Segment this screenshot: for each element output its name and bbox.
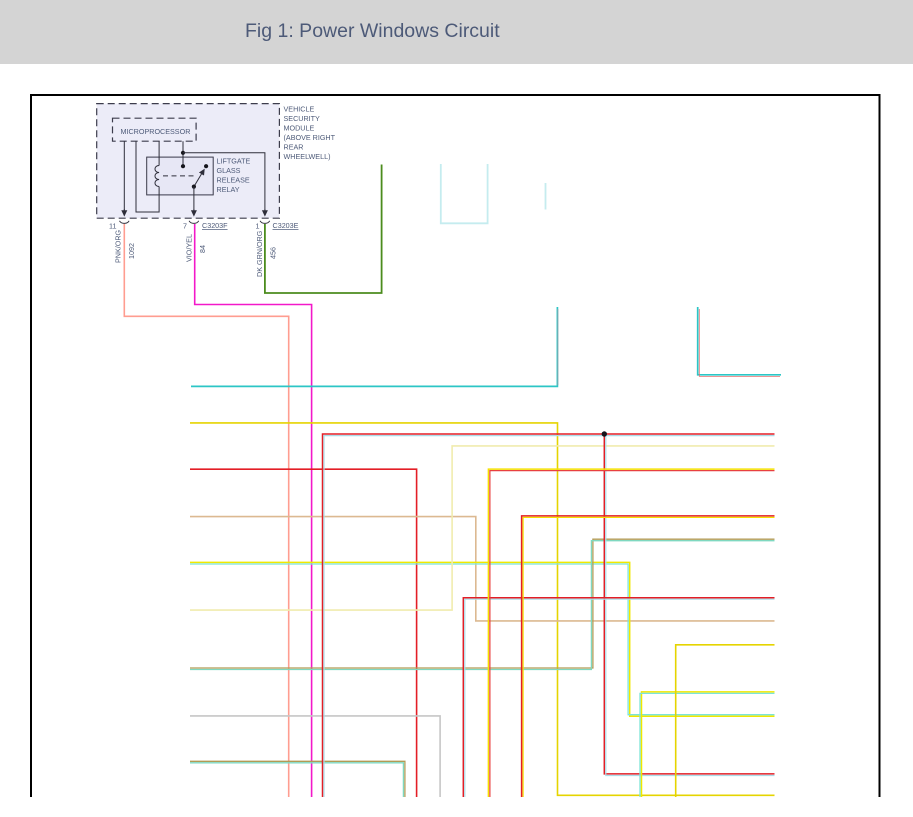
svg-text:1: 1 — [256, 222, 260, 231]
wire RED/LT BLU to SW2 pin3 — [463, 598, 774, 797]
svg-text:RELEASE: RELEASE — [217, 176, 250, 185]
svg-text:RELAY: RELAY — [217, 185, 240, 194]
wire GRY/ORG panel pin5 to SW2 pin6 — [190, 517, 775, 621]
wire LT BLU/BLK relay pin16 to panel pin6 — [191, 307, 557, 386]
svg-text:MODULE: MODULE — [284, 124, 315, 133]
svg-text:VEHICLE: VEHICLE — [284, 105, 315, 114]
svg-text:DK GRN/ORG: DK GRN/ORG — [255, 230, 264, 277]
wire VIO/YEL 84 — [195, 224, 312, 797]
wire TAN/LT BLU panel pin7 — [190, 761, 405, 797]
pin 7 C3203F — [189, 209, 199, 223]
wire RED/LT BLU S343 drop to SW3 pin3 — [604, 434, 774, 774]
svg-text:1092: 1092 — [127, 243, 136, 259]
microprocessor U-VSM — [113, 118, 197, 141]
svg-text:GLASS: GLASS — [217, 166, 241, 175]
wire YEL/BLK SW2 pin5 — [676, 645, 775, 797]
svg-text:PNK/ORG: PNK/ORG — [114, 229, 123, 263]
svg-text:(ABOVE RIGHT: (ABOVE RIGHT — [284, 133, 336, 142]
liftgate glass release relay box — [147, 157, 214, 195]
wire DK GRN/ORG 456 — [265, 165, 382, 294]
wire WHT/LT BLU breaker to relay pin3 — [545, 183, 547, 210]
svg-text:VIO/YEL: VIO/YEL — [185, 234, 194, 262]
svg-text:84: 84 — [198, 245, 207, 253]
wire WHT/YEL panel pin4 to SW1 pin6 — [190, 446, 775, 610]
svg-text:7: 7 — [183, 222, 187, 231]
svg-text:456: 456 — [269, 247, 278, 259]
wire PNK/ORG 1092 — [124, 224, 288, 797]
svg-text:REAR: REAR — [284, 143, 304, 152]
svg-text:MICROPROCESSOR: MICROPROCESSOR — [121, 127, 191, 136]
relay contact + blade — [182, 141, 184, 166]
svg-text:11: 11 — [109, 222, 116, 231]
wire RED/LT BLU main S343 to SW1 pin3 — [323, 434, 775, 797]
svg-text:Fig 1: Power Windows Circuit: Fig 1: Power Windows Circuit — [245, 20, 500, 42]
vehicle security module box — [97, 104, 280, 219]
relay actuation dashed — [163, 175, 196, 177]
svg-text:LIFTGATE: LIFTGATE — [217, 157, 251, 166]
wire WHT/LT BLU fuse6 to breaker — [441, 164, 488, 223]
splice S343 — [602, 432, 606, 436]
wire WHT/BLK panel pin8 — [190, 716, 440, 797]
wire RED/YEL SW1 pin2 — [522, 516, 775, 797]
wire YEL/RED SW1 pin5 — [488, 469, 774, 797]
header bar — [0, 0, 913, 64]
wire YEL/BLK panel pin3 to SW3 pin6 — [190, 423, 775, 795]
wire TAN/LT BLU panel pin3b to SW1 pin1 — [190, 539, 775, 668]
svg-text:SECURITY: SECURITY — [284, 114, 321, 123]
pin 1 C3203E — [260, 209, 270, 223]
relay coil K-VSM — [158, 141, 160, 165]
pin 11 — [120, 209, 130, 223]
wire YEL/LT BLU SW2 pin2 — [642, 692, 775, 797]
wire LT BLU/RED relay pin15 to cluster — [698, 307, 781, 375]
svg-text:C3203E: C3203E — [273, 221, 299, 230]
svg-text:C3203F: C3203F — [202, 221, 228, 230]
svg-text:WHEELWELL): WHEELWELL) — [284, 152, 331, 161]
wire RED/BLK panel pin2 — [190, 469, 417, 797]
wire YEL/LT BLU panel pin6 to SW2 pin1 — [190, 562, 775, 716]
